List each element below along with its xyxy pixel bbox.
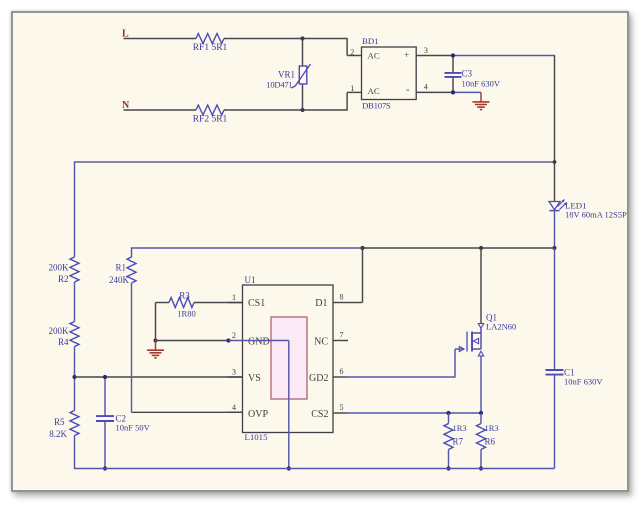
junction C2 bottom: [103, 466, 107, 470]
svg-text:6: 6: [340, 367, 344, 376]
resistor R2: [49, 257, 80, 284]
junction bus2 / rail: [552, 246, 556, 250]
varistor VR1: [266, 39, 310, 111]
wire R5-bottom: [74, 436, 76, 470]
svg-text:RF2 5R1: RF2 5R1: [193, 115, 228, 125]
svg-text:1: 1: [350, 84, 354, 93]
pin 3 VS: [228, 368, 261, 385]
ground at bridge output: [473, 92, 490, 109]
pin 2 GND: [232, 331, 270, 348]
svg-text:4: 4: [232, 403, 236, 412]
svg-text:CS1: CS1: [248, 298, 265, 309]
svg-text:R4: R4: [58, 337, 69, 347]
wire R2-R4: [74, 282, 76, 322]
svg-text:L1015: L1015: [245, 432, 269, 442]
svg-text:10nF 50V: 10nF 50V: [116, 422, 151, 432]
resistor RF2: [193, 105, 228, 125]
wire pin3 to rail: [416, 55, 555, 57]
wire DC+ rail upper: [554, 56, 556, 202]
pin 3 label: [424, 46, 428, 55]
wire bottom bus: [75, 468, 555, 470]
svg-text:2: 2: [350, 48, 354, 57]
wire bus2 left: [132, 247, 363, 249]
wire top bus: [75, 161, 555, 163]
capacitor C1: [546, 248, 604, 469]
junction top bus / rail: [553, 160, 557, 164]
svg-text:DB107S: DB107S: [362, 100, 391, 110]
svg-text:-: -: [406, 85, 410, 96]
svg-text:VS: VS: [248, 373, 261, 384]
svg-text:BD1: BD1: [362, 36, 379, 46]
wire L left: [124, 38, 197, 40]
svg-text:R6: R6: [485, 436, 496, 446]
wire Q1 drain: [480, 248, 482, 323]
wire R3 down: [155, 303, 157, 341]
capacitor C2: [96, 377, 151, 469]
junction R7 bottom: [446, 466, 450, 470]
resistor R7: [444, 413, 467, 469]
resistor R5: [49, 411, 79, 440]
svg-text:3: 3: [424, 46, 428, 55]
svg-text:GND: GND: [248, 337, 270, 348]
resistor R1: [109, 247, 136, 285]
junction GND net bottom: [287, 466, 291, 470]
junction N/VR1: [300, 108, 304, 112]
wire CS2 line: [348, 412, 481, 414]
svg-text:U1: U1: [245, 275, 256, 285]
wire gnd to GND pin: [156, 340, 229, 342]
capacitor C3: [445, 56, 501, 93]
wire R1 to OVP: [132, 283, 243, 412]
junction R6 bottom: [479, 466, 483, 470]
svg-text:LA2N60: LA2N60: [486, 322, 516, 332]
resistor RF1: [193, 34, 228, 54]
wire N left: [124, 109, 197, 111]
pin 8 D1: [315, 293, 348, 310]
wire R4-junction: [74, 347, 76, 411]
pin 5 CS2: [311, 403, 348, 420]
resistor R4: [49, 322, 80, 348]
wire L right: [224, 38, 362, 56]
svg-text:10nF 630V: 10nF 630V: [564, 376, 603, 386]
svg-text:240K: 240K: [109, 275, 130, 285]
junction CS2/R7: [446, 411, 450, 415]
svg-text:R2: R2: [58, 274, 69, 284]
net label L: [122, 29, 129, 40]
junction C3 top: [451, 53, 455, 57]
pin 2 label: [350, 48, 354, 57]
svg-text:C3: C3: [462, 69, 473, 79]
svg-text:8.2K: 8.2K: [49, 429, 67, 439]
net label N: [122, 100, 130, 111]
svg-text:1R80: 1R80: [177, 308, 195, 318]
svg-text:2: 2: [232, 331, 236, 340]
wire rail LED to bus2: [554, 211, 556, 248]
transistor Q1 LA2N60: [459, 313, 516, 356]
pin 4 label: [424, 83, 428, 92]
svg-text:R3: R3: [179, 290, 190, 300]
wire D1 to bus2: [348, 248, 363, 303]
svg-text:R1: R1: [115, 263, 126, 273]
wire Q1 source: [480, 356, 482, 413]
svg-text:VR1: VR1: [278, 70, 295, 80]
junction bus2 / D1: [360, 246, 364, 250]
junction bus2 / Q1 drain: [479, 246, 483, 250]
pin 1 CS1: [228, 293, 266, 309]
wire pin4: [416, 91, 481, 93]
resistor R3: [156, 290, 243, 318]
svg-text:18V 60mA 12S5P: 18V 60mA 12S5P: [565, 210, 627, 220]
wire GND net through U1: [229, 341, 289, 469]
svg-text:200K: 200K: [49, 326, 70, 336]
svg-text:OVP: OVP: [248, 409, 268, 420]
pin 6 GD2: [309, 367, 348, 384]
svg-text:AC: AC: [368, 86, 380, 96]
svg-text:1: 1: [232, 293, 236, 302]
svg-text:AC: AC: [368, 51, 380, 61]
pin 7 NC: [314, 331, 348, 348]
svg-text:200K: 200K: [49, 263, 70, 273]
svg-text:CS2: CS2: [311, 409, 328, 420]
svg-text:3: 3: [232, 368, 236, 377]
junction CS2/R6: [479, 411, 483, 415]
junction L/VR1: [300, 36, 304, 40]
IC U1 L1015: [243, 275, 334, 442]
svg-text:8: 8: [340, 293, 344, 302]
bridge rectifier BD1: [362, 36, 417, 110]
junction C3 bottom: [451, 90, 455, 94]
junction GND pin: [226, 338, 230, 342]
LED LED1: [549, 200, 627, 220]
svg-text:10nF 630V: 10nF 630V: [462, 79, 501, 89]
svg-text:10D471: 10D471: [266, 80, 292, 90]
svg-text:4: 4: [424, 83, 428, 92]
wire GD2 to gate: [348, 349, 460, 378]
ground at GND pin: [147, 341, 164, 358]
wire left rail top: [74, 161, 76, 257]
svg-text:1R3: 1R3: [485, 423, 499, 433]
svg-text:RF1 5R1: RF1 5R1: [193, 43, 228, 53]
junction VS node: [72, 375, 76, 379]
junction C2 top: [103, 375, 107, 379]
svg-text:7: 7: [340, 331, 344, 340]
junction gnd node: [153, 338, 157, 342]
svg-text:5: 5: [340, 403, 344, 412]
svg-text:NC: NC: [314, 337, 328, 348]
wire bus2 right: [363, 247, 555, 249]
overlay rectangle inside U1: [271, 317, 307, 399]
resistor R6: [477, 413, 499, 469]
wire N right: [224, 92, 362, 110]
svg-text:1R3: 1R3: [453, 423, 467, 433]
pin 4 OVP: [228, 403, 269, 420]
svg-text:D1: D1: [315, 298, 327, 309]
wire VS line: [75, 376, 243, 378]
svg-text:R5: R5: [54, 417, 65, 427]
svg-text:R7: R7: [453, 436, 464, 446]
svg-text:+: +: [404, 51, 409, 61]
svg-text:GD2: GD2: [309, 373, 328, 384]
pin 1 label: [350, 84, 354, 93]
